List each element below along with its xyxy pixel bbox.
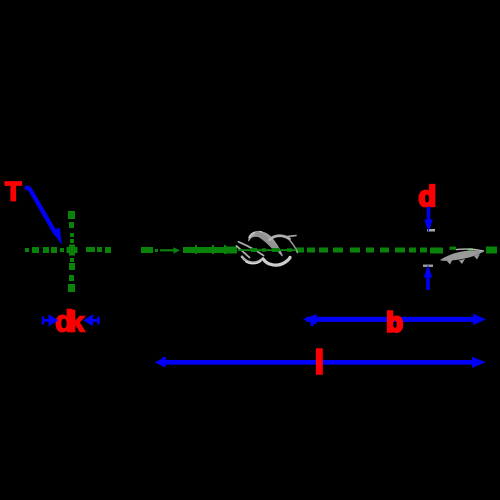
- svg-text:l: l: [315, 344, 324, 381]
- shaft bottom edge tick: [423, 265, 433, 268]
- svg-text:b: b: [386, 307, 403, 338]
- horizontal centerline: [25, 245, 497, 254]
- dk left arrow: [42, 315, 58, 325]
- d dimension top arrow: [425, 207, 432, 231]
- b dimension line: [304, 314, 485, 325]
- shaft top edge tick: [427, 229, 435, 232]
- green line across break: [238, 248, 296, 252]
- vertical centerline: [67, 211, 78, 292]
- torque arrow: [25, 187, 62, 244]
- break symbol swirl: [237, 231, 298, 265]
- svg-text:T: T: [5, 177, 22, 207]
- d dimension bottom arrow: [425, 267, 432, 291]
- thread tip: [440, 249, 484, 264]
- dk right arrow: [84, 315, 100, 325]
- svg-text:k: k: [69, 307, 86, 339]
- l dimension line: [156, 357, 485, 367]
